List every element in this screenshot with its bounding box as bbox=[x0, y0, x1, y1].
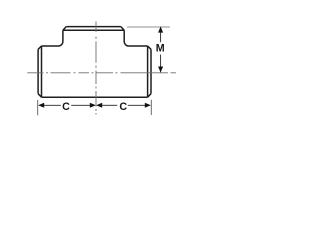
left C right arrowhead bbox=[90, 103, 96, 108]
svg-text:M: M bbox=[156, 43, 165, 55]
right end face line bbox=[150, 49, 152, 93]
right end top chamfer bbox=[148, 46, 151, 49]
left C left arrowhead bbox=[38, 103, 44, 108]
M dimension line lower bbox=[160, 55, 162, 73]
M down arrowhead bbox=[158, 67, 163, 73]
left C extension line bbox=[37, 100, 39, 115]
left end top chamfer bbox=[38, 46, 41, 49]
left end bottom chamfer bbox=[38, 94, 41, 98]
right end inner bevel line bbox=[147, 46, 149, 97]
svg-text:C: C bbox=[62, 101, 70, 113]
M extension line bbox=[127, 26, 170, 28]
right C dimension line left segment bbox=[102, 104, 117, 106]
branch top left chamfer bbox=[63, 27, 66, 31]
vertical centerline bbox=[95, 22, 97, 115]
right C dimension line right segment bbox=[128, 104, 145, 106]
right C extension line bbox=[150, 100, 152, 115]
horizontal centerline bbox=[27, 72, 176, 74]
run top left segment, left shoulder fillet, branch left wall bbox=[42, 30, 63, 46]
M up arrowhead bbox=[158, 26, 163, 32]
tee body outline bbox=[38, 27, 151, 98]
branch right wall, right shoulder fillet, run top right segment bbox=[124, 30, 147, 46]
right C left arrowhead bbox=[96, 103, 102, 108]
run bottom line bbox=[42, 96, 148, 98]
left end face line bbox=[37, 49, 39, 93]
left end inner bevel line bbox=[41, 46, 43, 97]
right end bottom chamfer bbox=[148, 94, 151, 98]
left C dimension line left segment bbox=[44, 104, 61, 106]
left C dimension line right segment bbox=[71, 104, 90, 106]
svg-text:C: C bbox=[119, 101, 127, 113]
branch inner bevel line bbox=[63, 29, 124, 31]
M dimension line upper bbox=[160, 27, 162, 42]
branch top face line bbox=[66, 26, 121, 28]
branch top right chamfer bbox=[121, 27, 124, 31]
right C right arrowhead bbox=[145, 103, 151, 108]
